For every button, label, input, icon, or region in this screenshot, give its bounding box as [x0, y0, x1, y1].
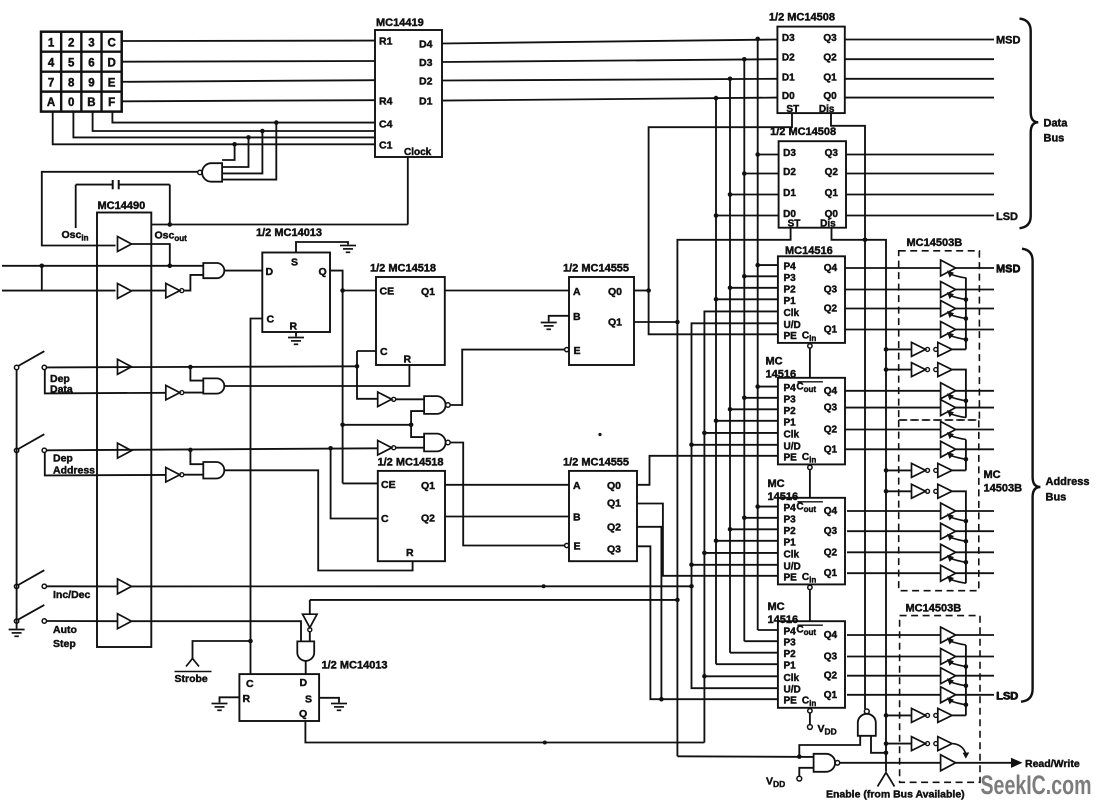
svg-text:P3: P3: [784, 273, 797, 284]
svg-text:MC: MC: [766, 356, 783, 368]
junction enable T15: [964, 683, 969, 688]
pair inverter b P2: [934, 368, 938, 372]
AND gate G5 dep data: [203, 378, 224, 393]
svg-text:Q1: Q1: [607, 498, 621, 510]
wire pair1 out: [952, 348, 966, 350]
Cout overline (U13): [797, 501, 823, 503]
junction Oscout: [168, 222, 173, 227]
decoder U8 1/2 MC14555: [569, 471, 637, 561]
svg-text:P4: P4: [784, 262, 797, 273]
svg-text:1/2 MC14555: 1/2 MC14555: [563, 457, 629, 469]
wire feedback bracket vertical: [41, 266, 43, 291]
wire Q2 U7 to B: [445, 516, 569, 518]
wire strobe to C rail: [193, 641, 251, 659]
svg-text:8: 8: [68, 77, 75, 89]
svg-text:Clk: Clk: [784, 549, 800, 560]
svg-text:14516: 14516: [768, 614, 799, 626]
wire data bus Q0 LSD: [846, 215, 994, 217]
tri-state buffer T5: [941, 383, 956, 399]
wire enable B line: [677, 755, 813, 758]
junction enable T4: [964, 337, 969, 342]
wire buffer output T3: [956, 308, 994, 310]
Cout overline (U12): [797, 381, 823, 383]
svg-text:P4: P4: [784, 503, 797, 514]
AND gate G2 osc gate: [203, 263, 224, 278]
svg-text:B: B: [573, 512, 581, 524]
wire G6 out to R of 14518b: [225, 470, 413, 570]
switch S4 lever: [18, 605, 44, 620]
svg-text:D2: D2: [419, 76, 433, 88]
tri-state buffer T3: [941, 301, 956, 317]
svg-text:Q: Q: [299, 708, 307, 720]
NAND gate G8 disable driver: [858, 714, 876, 736]
svg-text:Q2: Q2: [824, 671, 838, 682]
wire pair4 out to rail: [952, 491, 966, 583]
inverter B1: [166, 283, 180, 298]
junction osc AND input: [168, 264, 173, 269]
wire R FF2 to ground: [220, 697, 240, 702]
junction Dep Data AND tap: [188, 365, 193, 370]
switch S3 throw: [42, 584, 46, 588]
svg-text:1/2 MC14508: 1/2 MC14508: [769, 12, 835, 24]
pair inverter a P2: [912, 363, 926, 377]
svg-text:Q0: Q0: [607, 480, 621, 492]
wire buffer input T16: [847, 694, 941, 696]
svg-text:C: C: [381, 513, 389, 525]
svg-text:Q1: Q1: [823, 72, 837, 83]
wire pair input P6: [886, 743, 912, 745]
read/write arrowhead: [1011, 758, 1023, 768]
svg-text:6: 6: [88, 57, 94, 69]
svg-text:Data: Data: [1044, 118, 1069, 130]
tri-state buffer T17 read/write: [941, 755, 956, 771]
wire P2 stub U12: [730, 408, 778, 410]
junction strobe on C rail: [248, 639, 253, 644]
switch S2 throw: [42, 448, 46, 452]
Cin pin bubble (U12): [808, 465, 812, 469]
svg-text:Clk: Clk: [784, 429, 800, 440]
wire P2 stub U13: [730, 528, 778, 530]
wire buffer input T5: [845, 390, 941, 392]
wire Q1 U6: [634, 321, 677, 323]
wire buffer output T1: [956, 267, 994, 269]
svg-text:B: B: [573, 311, 581, 323]
wire keypad colF to C4: [112, 112, 375, 123]
junction D1 rail: [714, 96, 719, 101]
wire data bus Q1: [845, 78, 994, 80]
switch S2 lever: [18, 434, 44, 449]
wire branch to G8 in1: [799, 736, 860, 757]
junction rail to D2 U10: [742, 171, 747, 176]
Cout overline (U14): [797, 624, 823, 626]
svg-text:P1: P1: [784, 417, 797, 428]
latch U9 1/2 MC14508: [777, 27, 844, 114]
wire Clk stub 14516d: [704, 675, 778, 677]
wire read/write out: [956, 762, 1012, 764]
junction enable rail pair2: [884, 367, 889, 372]
svg-text:Q2: Q2: [824, 425, 838, 436]
junction P4 U12: [755, 384, 760, 389]
svg-text:A: A: [47, 97, 55, 109]
svg-text:PE: PE: [784, 696, 798, 707]
wire Q1 U5 to A: [445, 290, 569, 292]
svg-text:S: S: [291, 257, 298, 269]
svg-text:5: 5: [68, 57, 75, 69]
wire G9 out to buffer T17: [840, 762, 941, 764]
junction U/D 14516b: [689, 443, 694, 448]
svg-text:Q2: Q2: [823, 53, 837, 64]
tri-state buffer T10: [941, 523, 956, 539]
junction rail to D3 U10: [755, 152, 760, 157]
wire cap left: [76, 184, 113, 186]
wire pair input P1: [886, 348, 912, 350]
svg-text:D: D: [300, 677, 308, 689]
wire buffer output T2: [956, 289, 994, 291]
svg-text:R: R: [404, 354, 412, 366]
svg-text:D4: D4: [419, 39, 433, 51]
svg-text:P4: P4: [784, 383, 797, 394]
wire D2 to latch D1: [442, 79, 777, 81]
junction enable T10: [964, 539, 969, 544]
wire P3 stub U13: [744, 517, 778, 519]
svg-text:Q0: Q0: [608, 286, 622, 298]
wire D1 stub U10: [730, 194, 779, 196]
switch S4 Auto Step pole: [14, 619, 18, 623]
junction P4 U11: [755, 263, 760, 268]
svg-text:Q4: Q4: [824, 263, 838, 274]
svg-text:MC14419: MC14419: [376, 17, 424, 29]
ground at R (U4): [212, 704, 228, 711]
wire G8 in2 to enable rail: [871, 736, 886, 753]
enable input tent: [878, 773, 895, 787]
wire buffer input T4: [845, 329, 941, 331]
svg-text:LSD: LSD: [997, 690, 1019, 702]
switch S1 lever: [18, 351, 44, 366]
svg-text:Q: Q: [319, 266, 327, 278]
svg-text:Q1: Q1: [824, 690, 838, 701]
svg-text:Clock: Clock: [404, 147, 432, 158]
enable curve T16: [950, 701, 966, 705]
junction enable rail pair5: [884, 713, 889, 718]
wire buffer input T1: [845, 267, 941, 269]
pair inverter b P5: [934, 713, 938, 717]
junction C3 tap: [260, 129, 265, 134]
data rail bit0 vertical: [715, 98, 717, 664]
junction enable rail pair4: [884, 489, 889, 494]
wire buffer input T12: [847, 572, 941, 574]
wire C3 tap to NAND in3: [222, 131, 262, 173]
svg-text:SeekIC.com: SeekIC.com: [981, 770, 1092, 800]
wire P2 stub U14: [730, 652, 778, 654]
wire Dep Address lower branch: [45, 453, 166, 476]
tri-state buffer T13: [941, 627, 956, 643]
enable curve T8: [950, 455, 966, 459]
wire G2 out to D of FF1: [225, 270, 263, 272]
svg-text:3: 3: [88, 37, 94, 49]
junction Dep Address AND tap: [188, 448, 193, 453]
svg-text:Dis: Dis: [820, 219, 836, 230]
wire cap right drop to Oscout: [169, 185, 171, 225]
tri-state buffer T15: [941, 668, 956, 684]
svg-text:MC: MC: [768, 478, 785, 490]
wire G7 out to D FF2: [305, 661, 307, 674]
svg-text:Q1: Q1: [421, 286, 435, 298]
svg-text:Inc/Dec: Inc/Dec: [53, 589, 91, 601]
svg-text:MC14490: MC14490: [98, 200, 146, 212]
svg-text:Auto: Auto: [53, 624, 77, 636]
svg-text:ST: ST: [788, 219, 801, 230]
junction Q FF1 to CE: [340, 288, 345, 293]
enable rail group1: [965, 278, 967, 350]
svg-text:7: 7: [48, 77, 54, 89]
wire buffer input T11: [847, 551, 941, 553]
wire data bus Q0: [845, 97, 994, 99]
VDD terminal counter chain: [808, 725, 813, 730]
buffer A3 in MC14490: [118, 359, 132, 374]
wire NAND pair feed: [343, 424, 412, 426]
junction D2 rail: [728, 77, 733, 82]
junction B line branch: [797, 754, 802, 759]
wire U/D stub 14516c: [692, 564, 778, 566]
data rail bit2 vertical: [743, 59, 745, 641]
switch S1 Dep Data pole: [14, 365, 18, 369]
svg-text:Strobe: Strobe: [175, 673, 208, 685]
wire keypad colA to C1: [53, 112, 375, 145]
wire data bus Q1 lsd grp: [846, 194, 994, 196]
E bubble 14555a: [565, 348, 569, 352]
svg-text:P3: P3: [784, 514, 797, 525]
counter U5 1/2 MC14518: [376, 277, 445, 365]
wire inverter B2 out: [184, 392, 204, 394]
wire Auto Step to AND G7: [132, 621, 302, 641]
svg-text:Q2: Q2: [421, 513, 435, 525]
buffer A5 in MC14490: [118, 579, 132, 594]
flip-flop U4 1/2 MC14013: [239, 674, 319, 721]
wire osc row lower to buffer A2: [2, 290, 116, 292]
switch S3 lever: [18, 570, 44, 585]
svg-text:4: 4: [48, 57, 55, 69]
junction D3 rail: [742, 57, 747, 62]
junction enable rail pair3: [884, 468, 889, 473]
ground at R (U3): [288, 338, 304, 345]
junction enable rail pair1: [884, 347, 889, 352]
svg-text:1/2 MC14518: 1/2 MC14518: [370, 263, 436, 275]
tri-state bank MC14503B box2: [899, 420, 979, 591]
wire Cin U14 to VDD: [809, 713, 811, 724]
wire pair2 out to rail: [952, 370, 966, 418]
svg-text:Q4: Q4: [824, 386, 838, 397]
junction rail to D1 U10: [728, 192, 733, 197]
svg-text:S: S: [305, 694, 312, 706]
AND gate G7 auto step: [297, 641, 314, 661]
svg-text:D1: D1: [782, 72, 795, 83]
debouncer U2 MC14490: [97, 213, 151, 648]
wire G3 out to E1: [450, 350, 565, 405]
svg-text:U/D: U/D: [784, 320, 801, 331]
wire keypad row2 to R2: [122, 60, 375, 63]
svg-text:9: 9: [88, 77, 94, 89]
svg-text:Dis: Dis: [819, 104, 835, 115]
junction enable T11: [964, 560, 969, 565]
junction P3 U11: [742, 274, 747, 279]
wire inverter B4 out: [184, 474, 204, 476]
wire keypad row4 to R4: [122, 100, 375, 101]
svg-text:Q1: Q1: [421, 480, 435, 492]
tri-state buffer T11: [941, 544, 956, 560]
tri-state buffer T12: [941, 565, 956, 581]
wire P4 stub U14: [758, 629, 778, 631]
svg-text:D3: D3: [419, 57, 433, 69]
wire S FF2 to ground: [319, 698, 339, 703]
wire buffer input T2: [845, 289, 941, 291]
svg-text:U/D: U/D: [784, 561, 801, 572]
wire Q0 U8 to PE2: [637, 456, 778, 485]
wire data bus Q2: [845, 58, 994, 60]
wire buffer input T8: [845, 448, 941, 450]
wire B5 out to G4: [396, 447, 424, 449]
wire Q FF2 to clk rail: [305, 721, 704, 743]
wire Inc/Dec long: [132, 585, 692, 587]
wire buffer input T10: [847, 530, 941, 532]
wire CE1 stub: [343, 290, 376, 292]
svg-text:14503B: 14503B: [984, 483, 1023, 495]
svg-text:P2: P2: [784, 526, 797, 537]
junction incdec speck: [542, 584, 546, 588]
svg-text:LSD: LSD: [996, 211, 1018, 223]
svg-text:Clk: Clk: [784, 673, 800, 684]
svg-text:2: 2: [68, 37, 74, 49]
wire S pin to ground: [296, 242, 348, 253]
wire Clk stub 14516c: [704, 552, 778, 554]
wire CE2 stub: [343, 482, 378, 484]
wire C4 tap to NAND in4: [222, 123, 276, 180]
switch S4 throw: [42, 619, 46, 623]
counter U7 1/2 MC14518: [378, 471, 445, 561]
wire buffer output T8: [956, 448, 994, 450]
svg-text:Q3: Q3: [824, 526, 838, 537]
wire B U6 to ground: [549, 316, 569, 322]
counter U14 MC14516: [778, 621, 845, 708]
wire P4 stub U11: [758, 264, 778, 266]
junction P1 U13: [714, 539, 719, 544]
pair inverter a P1: [912, 342, 926, 356]
svg-text:P3: P3: [784, 638, 797, 649]
svg-text:A: A: [573, 286, 581, 298]
svg-text:C4: C4: [379, 119, 393, 131]
buffer A2 in MC14490: [118, 284, 132, 299]
inverter B3: [378, 392, 392, 407]
wire buffer input T14: [847, 656, 941, 658]
wire Oscout to clock: [151, 224, 408, 226]
svg-text:Step: Step: [53, 638, 76, 650]
svg-text:Q4: Q4: [824, 630, 838, 641]
svg-text:E: E: [574, 541, 581, 553]
wire Dis rail to enable rail: [865, 240, 886, 772]
enable curve T12: [950, 579, 966, 583]
wire Cin U12 to Cout U13: [809, 470, 811, 498]
junction P1 U12: [714, 419, 719, 424]
wire buffer output T10: [956, 530, 994, 532]
svg-text:Q1: Q1: [824, 325, 838, 336]
wire digit strobe 2 rail: [677, 228, 790, 757]
svg-text:Q3: Q3: [824, 652, 838, 663]
wire buffer output T12: [956, 572, 994, 574]
svg-text:U/D: U/D: [784, 685, 801, 696]
svg-text:C: C: [246, 678, 254, 690]
svg-text:1/2 MC14013: 1/2 MC14013: [256, 227, 322, 239]
svg-text:B: B: [87, 97, 95, 109]
wire to NAND G4 upper input: [411, 425, 424, 437]
tri-state buffer T16: [941, 687, 956, 703]
buffer A6 in MC14490: [118, 614, 132, 629]
ground switch rail: [9, 630, 25, 637]
wire buffer output T15: [956, 675, 994, 677]
svg-text:P2: P2: [784, 649, 797, 660]
wire C pin FF1 to strobe rail: [251, 319, 263, 675]
wire to AND G6 upper input: [190, 450, 203, 464]
wire buffer input T15: [847, 675, 941, 677]
svg-text:Q1: Q1: [824, 444, 838, 455]
svg-text:Data: Data: [50, 384, 73, 396]
wire R pin to ground: [295, 332, 297, 337]
svg-text:PE: PE: [784, 452, 798, 463]
svg-text:MC: MC: [984, 469, 1001, 481]
svg-text:Q2: Q2: [824, 547, 838, 558]
svg-text:D3: D3: [783, 148, 796, 159]
svg-text:Q0: Q0: [823, 91, 837, 102]
inverter B5: [378, 440, 392, 455]
junction Dis rail: [863, 238, 868, 243]
svg-text:R1: R1: [379, 36, 393, 48]
svg-text:1: 1: [48, 37, 55, 49]
svg-text:1/2 MC14518: 1/2 MC14518: [378, 457, 444, 469]
svg-text:MC: MC: [768, 601, 785, 613]
svg-text:PE: PE: [784, 331, 798, 342]
inverter B2: [166, 385, 180, 400]
inverter B6 down: [303, 614, 318, 628]
wire pair input P3: [886, 469, 912, 471]
wire keypad colB to C3: [93, 112, 375, 131]
svg-text:Q2: Q2: [607, 522, 621, 534]
wire buffer output T6: [956, 407, 994, 409]
wire data bus Q3 lsd grp: [846, 154, 994, 156]
wire Dis U10 to rail: [832, 228, 866, 240]
junction C1 tap: [232, 142, 237, 147]
svg-text:MC14516: MC14516: [785, 245, 833, 257]
wire Clk rail: [704, 311, 778, 742]
Cin pin bubble (U13): [808, 585, 812, 589]
keypad grid lines: [41, 32, 122, 112]
wire G5 out to R of 14518a: [225, 365, 410, 386]
svg-text:Q4: Q4: [824, 506, 838, 517]
junction enable rail G8: [884, 751, 889, 756]
wire buffer A2 out to inverter: [132, 290, 166, 292]
junction enable T5: [964, 399, 969, 404]
wire Clock to oscillator: [407, 157, 409, 225]
svg-text:P4: P4: [784, 627, 797, 638]
junction Q1 U6 on rail: [675, 320, 680, 325]
wire Dep Data lower branch: [45, 370, 166, 394]
wire Q2 U8 down: [637, 527, 661, 699]
latch U10 1/2 MC14508: [779, 141, 846, 228]
svg-text:Enable (from Bus Available): Enable (from Bus Available): [826, 789, 965, 801]
enable curve T4: [950, 336, 966, 340]
wire P1 stub U14: [716, 663, 778, 665]
wire buffer output T14: [956, 656, 994, 658]
wire B6 out to G7: [309, 632, 311, 642]
svg-text:Q3: Q3: [824, 285, 838, 296]
junction enable T16: [964, 703, 969, 708]
